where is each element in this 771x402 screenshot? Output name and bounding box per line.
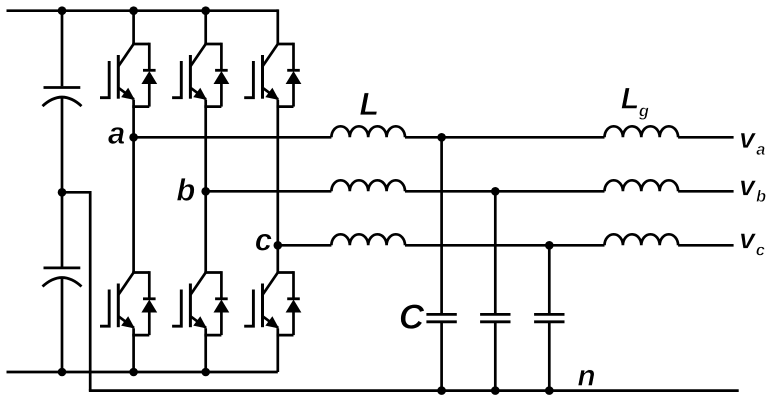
wire: cap column phase c lower: [548, 323, 551, 391]
wire: leg a midpoint vertical: [132, 100, 135, 273]
junction dot: filter cap tap, phase c: [545, 241, 554, 250]
transistor Q3 (upper IGBT, phase c) with freewheel diode: [244, 43, 300, 107]
wire: phase c line to output: [678, 244, 734, 247]
wire: cap column phase a lower: [440, 323, 443, 391]
transistor Q6 (lower IGBT, phase c) with freewheel diode: [244, 271, 300, 335]
label c: [256, 234, 272, 251]
wire: phase b line L to Lg: [405, 190, 605, 193]
capacitor Cdc1 (upper DC-link): [43, 88, 82, 107]
wire: cap column phase a upper: [440, 137, 443, 313]
label L: [360, 93, 377, 115]
label b: [177, 178, 195, 201]
inductor Lg (phase c): [605, 234, 679, 245]
wire: neutral line n: [89, 389, 739, 392]
wire: phase c line L to Lg: [405, 244, 605, 247]
transistor Q2 (upper IGBT, phase b) with freewheel diode: [172, 43, 228, 107]
capacitor Cdc2 (lower DC-link): [43, 268, 82, 287]
capacitor C (phase b): [480, 314, 510, 321]
inductor Lg (phase a): [605, 126, 679, 137]
wire: leg c midpoint vertical: [276, 100, 279, 273]
inductor L (phase b): [331, 180, 405, 191]
junction dot: filter cap tap, phase b: [491, 187, 500, 196]
wire: phase a line to filter: [134, 136, 332, 139]
label Lg: [621, 88, 637, 109]
wire: DC midpoint to neutral n: [62, 192, 90, 390]
junction dot: leg b on - rail: [201, 368, 210, 377]
capacitor C (phase c): [534, 314, 564, 321]
label C: [401, 304, 425, 329]
junction dot: cap phase a on neutral: [437, 386, 446, 395]
label v_b: [741, 180, 757, 195]
label n: [578, 370, 594, 386]
label a: [108, 127, 124, 144]
junction dot: leg b on + rail: [201, 6, 210, 15]
wire: phase c line to filter: [278, 244, 332, 247]
wire: phase b line to filter: [206, 190, 332, 193]
wire: leg c emitter drop to - rail: [276, 329, 279, 373]
inductor Lg (phase b): [605, 180, 679, 191]
wire: leg a emitter drop to - rail: [132, 329, 135, 373]
wire: leg b emitter drop to - rail: [204, 329, 207, 373]
wire: leg c collector drop from + rail: [276, 9, 279, 44]
wire: leg b midpoint vertical: [204, 100, 207, 273]
wire: cap column phase b lower: [494, 323, 497, 391]
junction dot: filter cap tap, phase a: [437, 133, 446, 142]
wire: leg b collector drop from + rail: [204, 9, 207, 44]
node c: phase c output: [274, 241, 283, 250]
wire: cap column phase b upper: [494, 191, 497, 313]
junction dot: Cdc column on - rail: [58, 368, 67, 377]
wire: leg a collector drop from + rail: [132, 9, 135, 44]
junction dot: leg a on - rail: [129, 368, 138, 377]
label v_c: [741, 233, 757, 248]
transistor Q5 (lower IGBT, phase b) with freewheel diode: [172, 271, 228, 335]
inductor L (phase a): [331, 126, 405, 137]
wire: phase a line to output: [678, 136, 734, 139]
junction dot: Cdc column on + rail: [58, 6, 67, 15]
junction dot: cap phase c on neutral: [545, 386, 554, 395]
junction dot: leg a on + rail: [129, 6, 138, 15]
wire: negative DC rail: [7, 371, 278, 374]
wire: phase b line to output: [678, 190, 734, 193]
junction dot: cap phase b on neutral: [491, 386, 500, 395]
node: DC midpoint junction: [58, 188, 67, 197]
transistor Q4 (lower IGBT, phase a) with freewheel diode: [100, 271, 156, 335]
wire: DC-link capacitor column: [61, 11, 64, 87]
node b: phase b output: [201, 187, 210, 196]
inductor L (phase c): [331, 234, 405, 245]
wire: positive DC rail: [7, 9, 278, 12]
wire: cap column phase c upper: [548, 245, 551, 313]
node a: phase a output: [129, 133, 138, 142]
label v_a: [741, 133, 757, 148]
wire: phase a line L to Lg: [405, 136, 605, 139]
transistor Q1 (upper IGBT, phase a) with freewheel diode: [100, 43, 156, 107]
capacitor C (phase a): [426, 314, 456, 321]
